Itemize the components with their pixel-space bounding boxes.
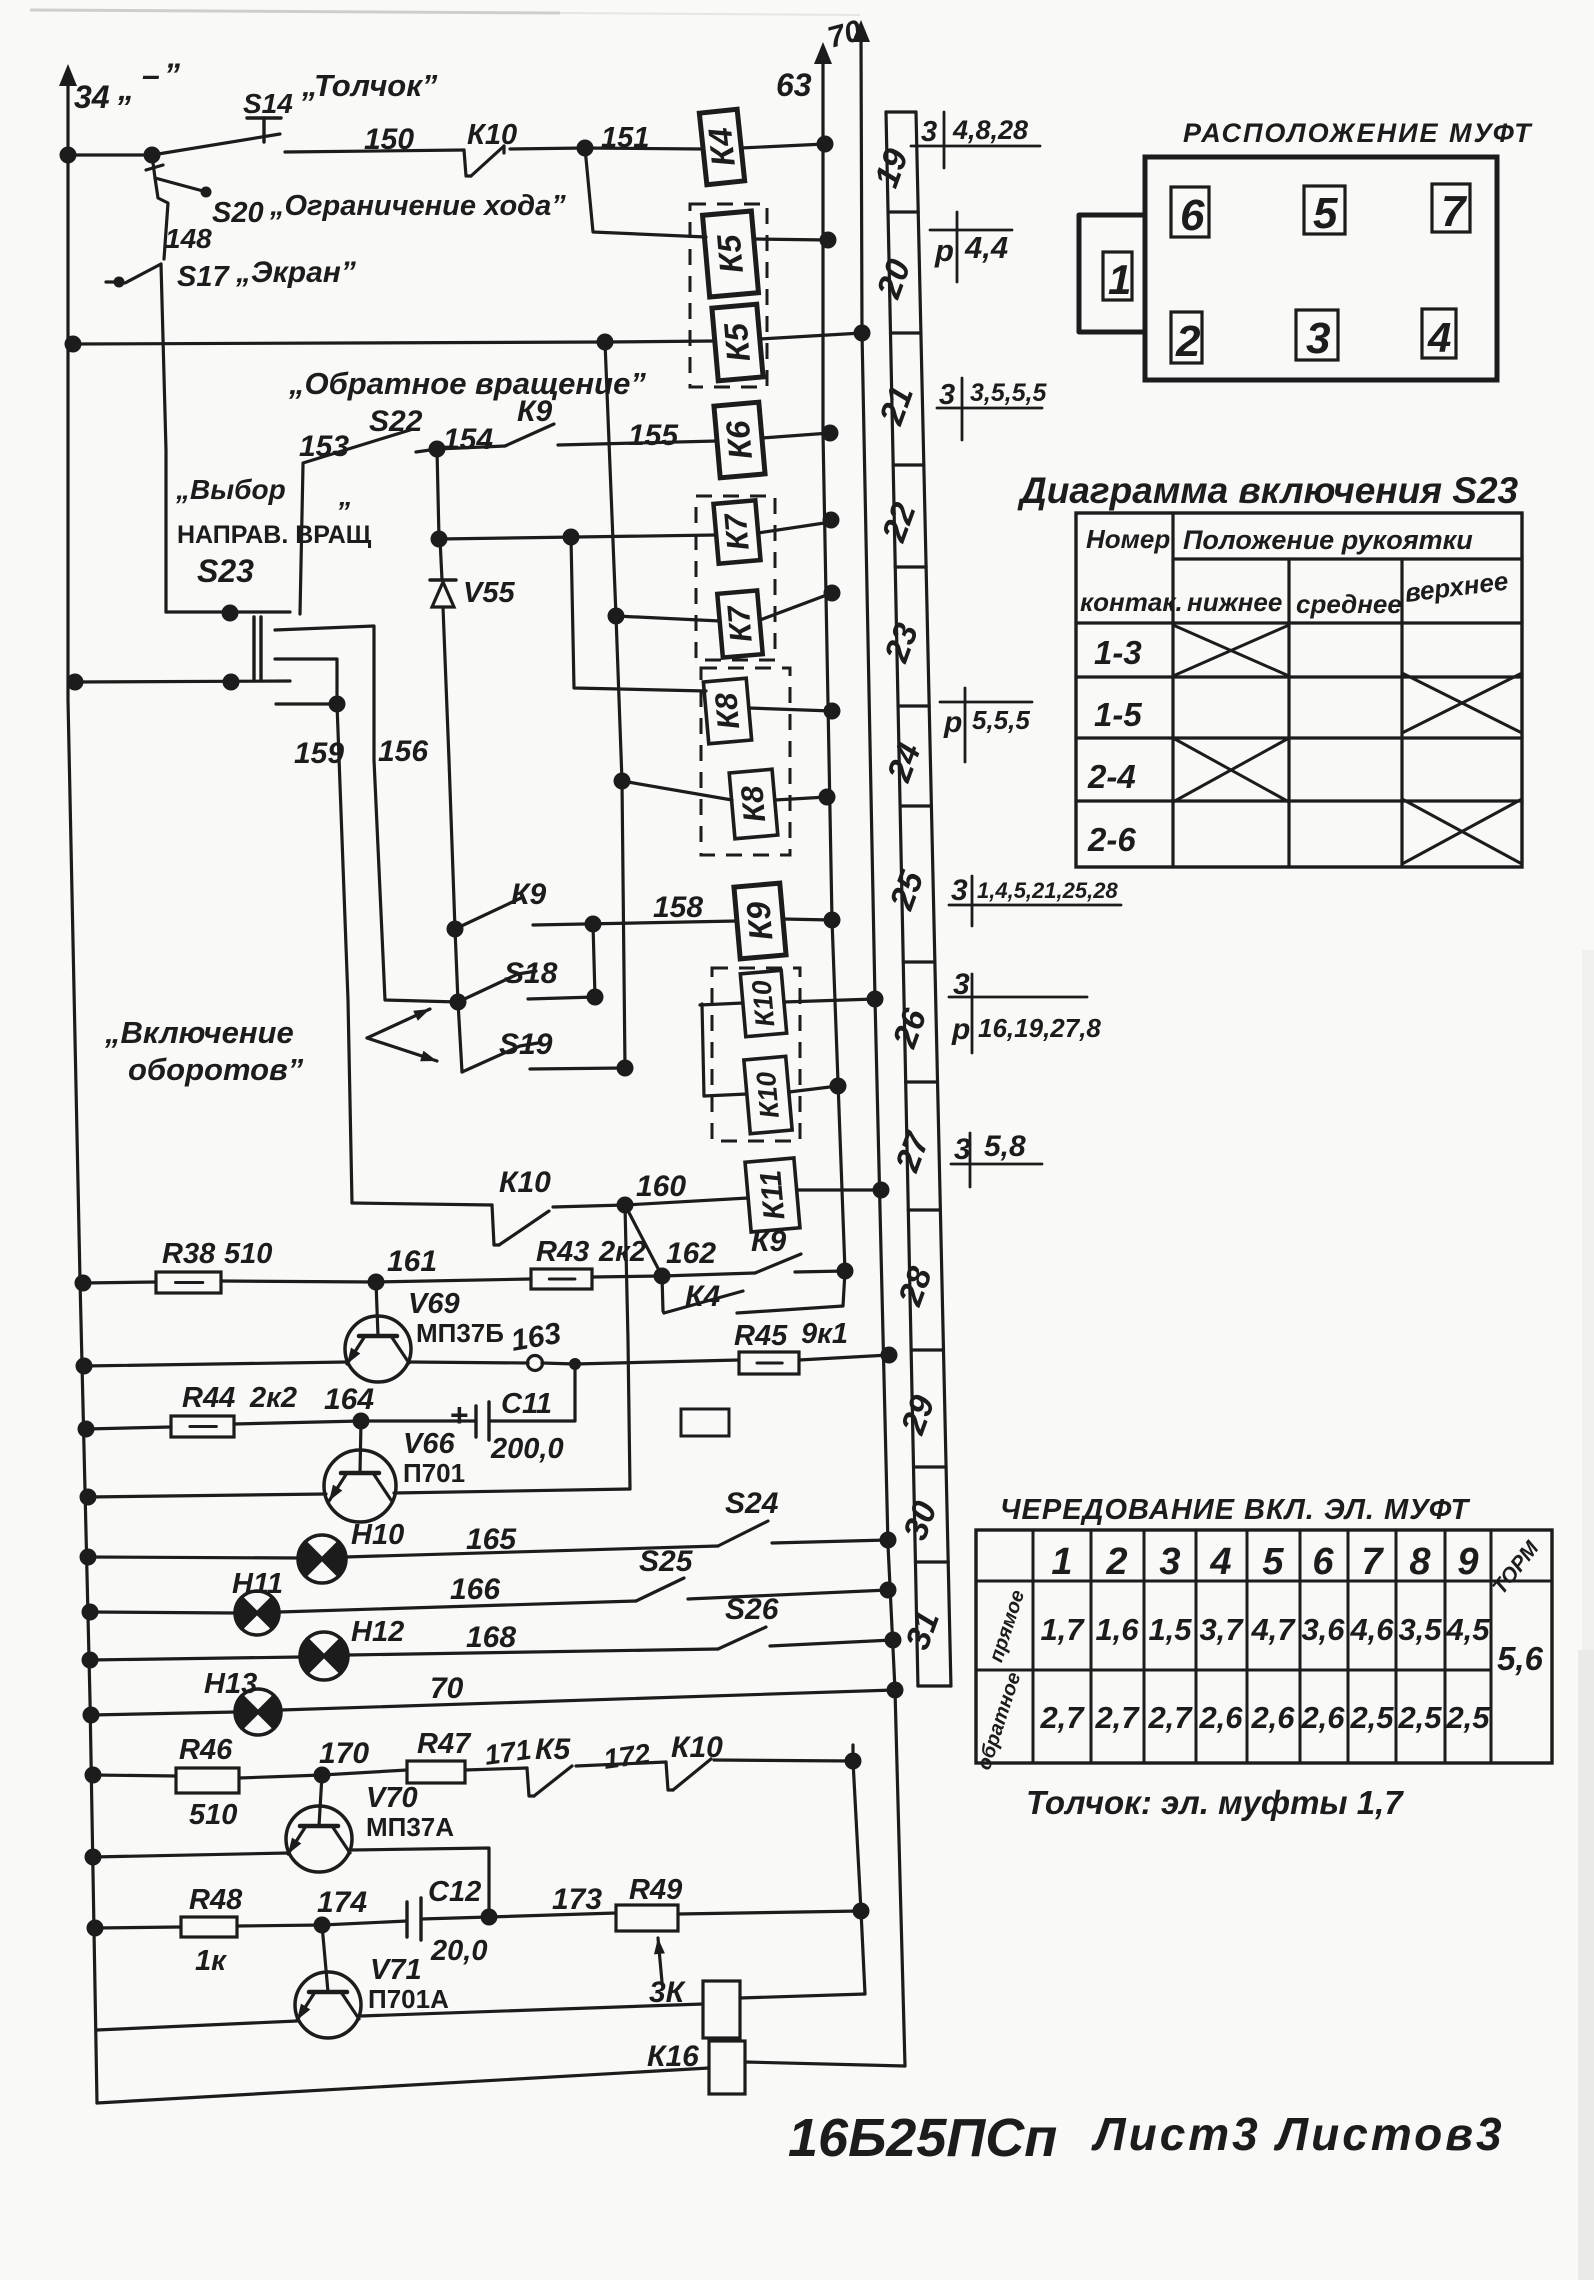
svg-text:165: 165 <box>466 1523 517 1556</box>
svg-text:2,6: 2,6 <box>1198 1700 1243 1735</box>
svg-text:S23: S23 <box>197 553 254 589</box>
svg-text:2к2: 2к2 <box>598 1236 646 1268</box>
svg-text:170: 170 <box>319 1737 369 1770</box>
node junction B-S25 <box>880 1582 897 1599</box>
node junction A-K4 <box>817 136 834 153</box>
svg-text:„Ограничение хода”: „Ограничение хода” <box>269 190 566 222</box>
wire R44 row <box>86 1427 171 1429</box>
svg-text:20,0: 20,0 <box>430 1935 487 1967</box>
clutch square 2 <box>1171 312 1202 363</box>
svg-text:„: „ <box>117 71 134 107</box>
wire 151-K5a <box>585 148 706 237</box>
node junction S18 <box>450 994 467 1011</box>
wire emitter V70 <box>93 1853 288 1857</box>
svg-text:172: 172 <box>602 1738 653 1775</box>
node S20 contact <box>201 187 212 198</box>
node junction B-K10a <box>867 991 884 1008</box>
dashed group box K5 <box>690 204 767 387</box>
wire 170-R47 <box>322 1770 407 1775</box>
relay coil 3K <box>703 1981 740 2038</box>
wire R49-vertC <box>678 1911 861 1914</box>
svg-text:Лист3 Листов3: Лист3 Листов3 <box>1091 2108 1505 2160</box>
node junction A-K7a <box>823 512 840 529</box>
svg-text:„Экран”: „Экран” <box>235 256 356 289</box>
node junction 150-branch <box>144 147 161 164</box>
relay coil K7 upper <box>713 500 760 563</box>
clutch square 5 <box>1304 186 1345 234</box>
node junction B-70 <box>887 1682 904 1699</box>
wire rung 344 <box>73 342 605 344</box>
clutch layout tab <box>1079 215 1145 332</box>
svg-text:среднее: среднее <box>1296 589 1402 619</box>
svg-text:К7: К7 <box>718 511 756 552</box>
svg-text:К9: К9 <box>751 1225 786 1258</box>
wire 153 vert <box>300 465 303 614</box>
wire 164-C11 <box>361 1419 476 1422</box>
resistor R45 <box>739 1352 799 1374</box>
svg-text:р: р <box>943 706 962 739</box>
wire rung K7a <box>439 535 716 539</box>
svg-text:П701А: П701А <box>368 1984 449 2014</box>
wire 148 <box>155 178 168 259</box>
svg-text:162: 162 <box>666 1237 716 1270</box>
svg-text:2,7: 2,7 <box>1094 1700 1140 1735</box>
svg-text:П701: П701 <box>403 1458 465 1488</box>
resistor R47 <box>407 1761 465 1783</box>
svg-text:3: 3 <box>921 116 937 148</box>
clutch square 3 <box>1296 310 1338 360</box>
node junction bus-top <box>60 147 77 164</box>
wire S23 bottom <box>75 681 290 682</box>
table muft grid <box>976 1530 1552 1763</box>
svg-text:R43: R43 <box>536 1236 589 1268</box>
svg-text:2: 2 <box>1105 1541 1127 1583</box>
wire K10 pair link <box>702 1004 704 1096</box>
wire R43-162 <box>592 1276 662 1277</box>
contact K4 bypass <box>662 1276 664 1313</box>
wire 173-R49 <box>489 1913 616 1917</box>
node junction A-K5a <box>820 232 837 249</box>
svg-text:4,4: 4,4 <box>964 230 1008 265</box>
wire 160 vert <box>625 1205 630 1489</box>
svg-text:„Обратное вращение”: „Обратное вращение” <box>288 366 646 401</box>
svg-text:S25: S25 <box>639 1545 694 1578</box>
svg-text:Н12: Н12 <box>351 1616 404 1648</box>
svg-text:R45: R45 <box>734 1320 788 1352</box>
svg-text:1,5: 1,5 <box>1148 1612 1192 1647</box>
connector 163 <box>528 1356 543 1371</box>
svg-text:6: 6 <box>1180 191 1205 240</box>
node junction bus-1775 <box>85 1767 102 1784</box>
node junction A-162 <box>837 1263 854 1280</box>
transistor V66 <box>324 1450 396 1522</box>
svg-text:оборотов”: оборотов” <box>128 1052 304 1087</box>
node S17 left <box>114 277 125 288</box>
svg-text:К4: К4 <box>685 1280 720 1313</box>
contact K10 (172) <box>666 1762 673 1790</box>
node junction bus-1660 <box>82 1652 99 1669</box>
wire K8a-busA <box>749 708 832 711</box>
svg-text:3: 3 <box>1159 1541 1180 1583</box>
wire 159-K10c <box>352 1203 492 1205</box>
node junction 174 <box>314 1917 331 1934</box>
svg-text:К5: К5 <box>710 233 750 275</box>
terminal strip ladder <box>886 112 918 1686</box>
resistor R38 <box>156 1272 221 1293</box>
svg-text:166: 166 <box>450 1573 500 1606</box>
node junction vertC-R49 <box>853 1903 870 1920</box>
node junction bus-344 <box>65 336 82 353</box>
wire 148-S23 <box>161 264 166 612</box>
wire S23 out1 <box>275 626 374 760</box>
relay coil K10 upper <box>740 970 786 1036</box>
clutch square 4 <box>1422 309 1456 358</box>
node junction A-K8b <box>819 789 836 806</box>
wire 155 <box>558 441 717 445</box>
wire R46 row <box>93 1775 176 1776</box>
wire bus A 63 <box>823 58 845 1271</box>
wire bottom bus-K16 <box>97 2068 709 2103</box>
contact K5 (171) <box>465 1768 527 1770</box>
svg-text:Положение рукоятки: Положение рукоятки <box>1183 525 1473 555</box>
wire K9sw-S18 <box>455 929 458 1002</box>
svg-text:2,7: 2,7 <box>1039 1700 1085 1735</box>
node junction 159 top <box>329 696 346 713</box>
wire 158 <box>533 921 737 925</box>
wire H13 row <box>91 1712 236 1715</box>
node junction bus-1283 <box>75 1275 92 1292</box>
wire K5b-busB <box>760 333 862 339</box>
svg-text:156: 156 <box>378 735 428 768</box>
relay coil K8 upper <box>703 678 751 744</box>
svg-text:9к1: 9к1 <box>801 1318 848 1350</box>
wire 160 <box>553 1205 625 1207</box>
wire 781-S19 <box>622 781 625 1068</box>
svg-text:148: 148 <box>165 223 212 254</box>
svg-text:9: 9 <box>1457 1541 1478 1583</box>
switch S25 <box>636 1578 684 1601</box>
svg-text:155: 155 <box>628 419 679 452</box>
svg-text:К8: К8 <box>734 784 772 824</box>
wire S25 out <box>688 1590 888 1599</box>
node junction A-K9 <box>824 912 841 929</box>
wire S20 stem <box>152 155 155 178</box>
wire vertC <box>853 1745 865 1994</box>
transistor V69 <box>345 1316 411 1382</box>
svg-text:МП37Б: МП37Б <box>416 1318 504 1348</box>
svg-text:154: 154 <box>443 423 493 456</box>
switch S18 <box>458 974 518 1002</box>
relay coil K4 <box>699 109 744 185</box>
wire R45-busB <box>799 1355 889 1360</box>
svg-text:К10: К10 <box>499 1166 551 1199</box>
svg-text:4: 4 <box>1209 1541 1231 1583</box>
svg-text:1к: 1к <box>195 1945 227 1977</box>
wire emitter V69 <box>84 1362 347 1366</box>
svg-text:Толчок: эл. муфты 1,7: Толчок: эл. муфты 1,7 <box>1026 1784 1404 1821</box>
node junction S18 out <box>587 989 604 1006</box>
clutch layout box <box>1145 157 1497 380</box>
wire top rung left <box>68 153 152 156</box>
svg-text:2: 2 <box>1175 317 1201 366</box>
switch S26 <box>718 1627 766 1649</box>
clutch square 7 <box>1432 184 1470 232</box>
svg-text:1-5: 1-5 <box>1094 696 1142 733</box>
node junction bus-1612 <box>82 1604 99 1621</box>
svg-text:3: 3 <box>939 379 955 411</box>
svg-text:S24: S24 <box>725 1487 779 1520</box>
svg-text:К8: К8 <box>708 691 746 731</box>
node junction 170 <box>314 1767 331 1784</box>
wire K10b-busA <box>789 1086 838 1092</box>
node junction A-K6 <box>822 425 839 442</box>
node junction K9sw <box>447 921 464 938</box>
svg-text:S19: S19 <box>499 1028 553 1061</box>
misc small box <box>681 1409 729 1436</box>
node junction B-S24 <box>880 1532 897 1549</box>
svg-text:3: 3 <box>951 874 968 907</box>
wire S23 top <box>166 610 290 613</box>
wire 616 vert <box>616 616 622 781</box>
node junction bus-1429 <box>78 1421 95 1438</box>
relay coil K5 lower <box>712 304 763 381</box>
wire S24 out <box>772 1540 888 1543</box>
node junction bus-1928 <box>87 1920 104 1937</box>
relay coil K8 lower <box>729 769 778 838</box>
svg-text:4: 4 <box>1427 314 1451 361</box>
node junction B-K11 <box>873 1182 890 1199</box>
svg-text:V70: V70 <box>366 1782 418 1814</box>
node junction bus-1366 <box>76 1358 93 1375</box>
node junction A-K7b <box>824 585 841 602</box>
svg-text:К10: К10 <box>746 979 780 1028</box>
wire S23 out3 <box>276 702 337 705</box>
wire emitter V71 row <box>97 2021 297 2030</box>
svg-text:К10: К10 <box>751 1070 785 1119</box>
svg-text:7: 7 <box>1361 1541 1384 1583</box>
node junction B-R45 <box>881 1347 898 1364</box>
wire K9-busA bottom <box>795 1271 845 1272</box>
switch S20 <box>155 178 203 191</box>
svg-text:Н10: Н10 <box>351 1519 404 1551</box>
svg-text:5,6: 5,6 <box>1497 1640 1544 1677</box>
wire 166 <box>279 1601 636 1612</box>
svg-text:МП37А: МП37А <box>366 1812 454 1842</box>
table S23 cross 1-3 <box>1173 625 1289 676</box>
svg-text:3,5,5,5: 3,5,5,5 <box>970 379 1048 407</box>
switch S24 <box>718 1521 768 1546</box>
wire 165 <box>345 1546 718 1557</box>
resistor R43 <box>531 1269 592 1289</box>
svg-text:3,6: 3,6 <box>1301 1612 1345 1647</box>
svg-text:S26: S26 <box>725 1593 779 1626</box>
node junction S19 out <box>617 1060 634 1077</box>
annotation 20 <box>930 229 1012 232</box>
node junction 342 <box>597 334 614 351</box>
node junction 161 <box>368 1274 385 1291</box>
svg-text:”: ” <box>336 496 350 527</box>
wire R44-164 <box>234 1421 361 1424</box>
switch S23 bridge <box>252 617 255 679</box>
lamp H13 <box>235 1696 258 1729</box>
wire S17 stub <box>106 280 119 283</box>
switch S22 <box>303 430 410 463</box>
svg-text:„Толчок”: „Толчок” <box>301 68 438 103</box>
wire 571 vert <box>571 537 706 691</box>
wire 168 <box>348 1649 718 1655</box>
svg-text:V66: V66 <box>403 1428 455 1460</box>
node junction 616 <box>608 608 625 625</box>
node junction S23 bottom <box>223 674 240 691</box>
svg-text:R48: R48 <box>189 1884 243 1916</box>
wire S23 out2 <box>275 659 337 704</box>
relay coil K16 <box>709 2041 745 2094</box>
svg-text:7: 7 <box>1441 187 1468 236</box>
svg-text:2-4: 2-4 <box>1087 758 1136 795</box>
wire 3K-vertC <box>740 1994 865 1998</box>
node junction 154 <box>429 441 446 458</box>
svg-text:S20: S20 <box>212 197 264 229</box>
svg-text:5,5,5: 5,5,5 <box>972 705 1030 735</box>
resistor R44 <box>171 1416 234 1437</box>
svg-text:контак.: контак. <box>1080 587 1183 617</box>
wire 156 vertical <box>374 760 458 1002</box>
svg-text:R46: R46 <box>179 1734 233 1766</box>
svg-text:3: 3 <box>954 1133 971 1166</box>
wire K5a-busA <box>755 239 828 240</box>
svg-text:5: 5 <box>1262 1541 1284 1583</box>
svg-text:–: – <box>142 57 160 93</box>
svg-text:3,5: 3,5 <box>1398 1612 1442 1647</box>
wire S18 out <box>528 997 595 999</box>
wire H11 row <box>90 1612 235 1613</box>
node junction 160 <box>617 1197 634 1214</box>
relay coil K6 <box>714 402 765 478</box>
diode V55 <box>440 539 442 580</box>
wire S19 out <box>530 1068 625 1069</box>
svg-text:„Выбор: „Выбор <box>175 474 286 505</box>
wire S18-S19 <box>458 1002 462 1072</box>
wire 174-C12 <box>322 1921 407 1925</box>
wire collector V66-vert <box>394 1489 630 1493</box>
wire K8b-busA <box>775 797 827 800</box>
svg-text:16Б25ПСп: 16Б25ПСп <box>788 2108 1057 2168</box>
svg-text:160: 160 <box>636 1170 686 1203</box>
svg-text:V55: V55 <box>463 577 515 609</box>
svg-text:R49: R49 <box>629 1874 682 1906</box>
svg-text:171: 171 <box>483 1734 534 1771</box>
wire collector V69-163 <box>409 1362 528 1363</box>
wire C12-173 <box>421 1917 489 1919</box>
dashed group box K8 <box>701 668 790 855</box>
svg-text:К5: К5 <box>717 321 757 363</box>
svg-text:34: 34 <box>74 79 110 115</box>
wire K9-busA <box>783 919 832 920</box>
wire collector V71-3K <box>361 2004 703 2016</box>
relay coil K10 lower <box>744 1056 792 1133</box>
svg-text:S18: S18 <box>504 957 558 990</box>
svg-text:161: 161 <box>387 1245 437 1278</box>
clutch square 1 <box>1103 252 1132 300</box>
wire 160-162 <box>625 1205 662 1276</box>
svg-text:1: 1 <box>1051 1541 1072 1583</box>
svg-text:Н11: Н11 <box>232 1568 283 1600</box>
svg-text:164: 164 <box>324 1383 374 1416</box>
svg-text:R38: R38 <box>162 1238 216 1270</box>
wire K4-busA <box>741 144 825 148</box>
svg-text:3: 3 <box>1306 314 1330 363</box>
svg-text:С11: С11 <box>501 1388 552 1420</box>
switch K9 mid <box>437 446 505 449</box>
relay coil K7 lower <box>717 590 762 657</box>
node junction A-K8a <box>824 703 841 720</box>
wire 163-R45 <box>542 1363 575 1364</box>
svg-text:р: р <box>951 1013 970 1046</box>
svg-text:2,5: 2,5 <box>1445 1700 1490 1735</box>
svg-text:2,5: 2,5 <box>1397 1700 1442 1735</box>
svg-text:2к2: 2к2 <box>249 1382 297 1414</box>
mech link arrows <box>367 1009 430 1038</box>
switch S17 <box>125 264 161 283</box>
resistor R46 <box>176 1768 239 1793</box>
wire collector V70 <box>352 1848 489 1917</box>
wire 342 vert <box>605 342 720 621</box>
svg-text:158: 158 <box>653 891 703 924</box>
wire K7a-busA <box>758 522 831 533</box>
svg-text:510: 510 <box>224 1238 272 1270</box>
wire emitter V66 <box>88 1494 326 1497</box>
svg-text:4,7: 4,7 <box>1250 1612 1296 1647</box>
svg-text:510: 510 <box>189 1799 237 1831</box>
node junction C11 top <box>569 1358 581 1370</box>
dashed group box K7 <box>696 496 775 660</box>
wire H12 row <box>90 1657 301 1660</box>
transistor V71 <box>295 1972 361 2038</box>
capacitor C11 <box>474 1406 477 1437</box>
wire 151 <box>510 148 585 149</box>
annotation 22 <box>940 701 1032 704</box>
wire R38-161 <box>221 1281 376 1282</box>
node junction 158 <box>585 916 602 933</box>
node bus top arrow <box>59 64 77 86</box>
wire 172-vertC <box>714 1760 853 1761</box>
svg-text:S14: S14 <box>243 88 293 119</box>
svg-text:2,7: 2,7 <box>1147 1700 1193 1735</box>
wire 150 <box>285 150 464 152</box>
wire K10a left <box>700 1003 743 1005</box>
svg-text:К11: К11 <box>754 1169 791 1221</box>
svg-text:К9: К9 <box>511 878 546 911</box>
svg-text:К9: К9 <box>739 900 779 942</box>
node junction 173 <box>481 1909 498 1926</box>
table S23 cross 1-5 <box>1402 673 1522 733</box>
svg-text:4,8,28: 4,8,28 <box>952 115 1028 145</box>
svg-text:5,8: 5,8 <box>984 1130 1026 1163</box>
wire R48-174 <box>237 1925 322 1926</box>
lamp H11 <box>235 1597 257 1628</box>
svg-text:5: 5 <box>1313 189 1338 238</box>
table S23 cross 2-6 <box>1402 799 1522 864</box>
node junction 162 <box>654 1268 671 1285</box>
svg-text:168: 168 <box>466 1621 516 1654</box>
svg-text:200,0: 200,0 <box>490 1433 564 1465</box>
wire S18-158 <box>593 924 595 997</box>
svg-text:Номер: Номер <box>1086 524 1170 554</box>
svg-text:К9: К9 <box>517 395 552 428</box>
wire 160-K11 <box>625 1198 748 1205</box>
node junction A-K10b <box>830 1078 847 1095</box>
svg-text:2-6: 2-6 <box>1087 821 1136 858</box>
